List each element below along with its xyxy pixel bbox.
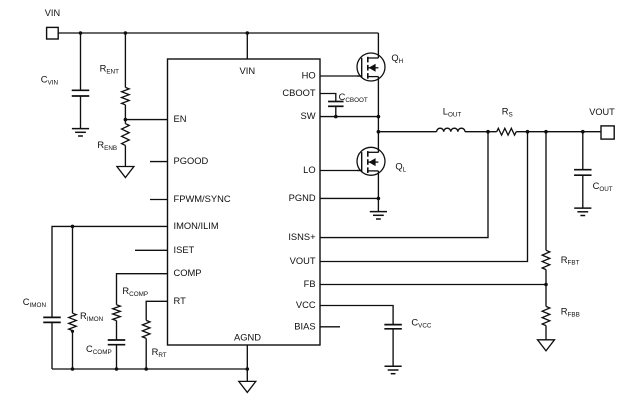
node RFBT tap — [544, 130, 548, 134]
node IC VIN tap — [246, 31, 250, 35]
node VOUT sense tap — [526, 130, 530, 134]
wire ISET stub — [135, 249, 168, 251]
wire RT — [146, 301, 167, 320]
svg-text:LO: LO — [303, 165, 315, 175]
capacitor COUT — [582, 132, 584, 170]
port VOUT terminal — [601, 126, 614, 139]
port VIN terminal — [47, 27, 59, 39]
svg-text:COMP: COMP — [174, 268, 202, 278]
node PGND — [377, 197, 381, 201]
resistor RENT — [124, 33, 126, 87]
node RIMON tap — [71, 225, 75, 229]
svg-text:SW: SW — [301, 111, 316, 121]
wire VCC — [320, 306, 393, 325]
wire RS to VOUT port — [516, 131, 601, 133]
node CVIN tap — [79, 31, 83, 35]
wire CBOOT — [320, 94, 336, 102]
wire AGND pin — [246, 345, 248, 381]
ground COUT — [574, 207, 591, 209]
wire AGND rail — [52, 368, 247, 370]
svg-text:VIN: VIN — [45, 8, 60, 18]
wire PGOOD stub — [150, 161, 168, 163]
svg-text:VCC: VCC — [296, 300, 316, 310]
wire IC VIN pin — [246, 33, 248, 59]
node ISNS+ tap — [486, 130, 490, 134]
ground RFBB — [538, 340, 555, 351]
resistor RRT — [142, 320, 150, 338]
node EN divider — [124, 118, 128, 122]
node CCOMP bottom — [115, 367, 119, 371]
transistor QH — [357, 53, 385, 81]
wire VIN rail — [58, 32, 378, 34]
resistor RFBB — [545, 285, 547, 307]
node RENT tap — [124, 31, 128, 35]
node SW output tap — [377, 130, 381, 134]
wire FPWM/SYNC stub — [150, 199, 168, 201]
node AGND — [246, 367, 250, 371]
wire QH source to QL drain — [377, 77, 379, 153]
svg-text:IMON/ILIM: IMON/ILIM — [174, 221, 219, 231]
svg-text:PGOOD: PGOOD — [174, 156, 209, 166]
wire HO to QH gate — [320, 75, 362, 77]
node RRT bottom — [144, 367, 148, 371]
svg-text:EN: EN — [174, 114, 187, 124]
svg-text:PGND: PGND — [289, 193, 316, 203]
svg-text:AGND: AGND — [234, 332, 261, 342]
svg-text:VOUT: VOUT — [589, 107, 615, 117]
capacitor CCOMP — [108, 339, 126, 341]
capacitor CVCC — [384, 324, 402, 326]
capacitor CBOOT — [328, 101, 344, 103]
ground AGND — [239, 381, 256, 392]
node FB — [544, 283, 548, 287]
wire SW — [320, 116, 378, 118]
resistor RENB — [124, 120, 126, 124]
wire SW to LOUT — [378, 131, 436, 133]
svg-text:VIN: VIN — [240, 66, 256, 76]
svg-text:CBOOT: CBOOT — [282, 88, 316, 98]
ground CVCC — [385, 365, 402, 367]
node SW — [377, 115, 381, 119]
capacitor CVIN — [80, 33, 82, 90]
node RIMON bottom — [71, 330, 74, 333]
node CIMON bottom — [71, 367, 75, 371]
wire BIAS stub — [320, 326, 340, 328]
wire LO to QL gate — [320, 170, 362, 172]
wire LOUT to RS — [465, 131, 497, 133]
wire IMON/ILIM — [52, 226, 168, 317]
ground CVIN — [72, 128, 89, 130]
ground RENB — [117, 167, 134, 178]
wire COMP — [117, 274, 168, 305]
wire PGND — [320, 197, 378, 199]
ground PGND — [370, 211, 387, 213]
wire EN — [125, 119, 167, 121]
resistor RIMON — [72, 226, 74, 313]
resistor RS — [497, 128, 517, 135]
svg-text:ISNS+: ISNS+ — [288, 232, 315, 242]
svg-text:HO: HO — [302, 71, 316, 81]
svg-text:VOUT: VOUT — [290, 256, 316, 266]
svg-text:FPWM/SYNC: FPWM/SYNC — [174, 194, 231, 204]
resistor RCOMP — [113, 305, 121, 321]
svg-text:ISET: ISET — [174, 245, 195, 255]
wire VOUT sense — [320, 132, 528, 262]
svg-text:FB: FB — [304, 279, 316, 289]
wire ISNS+ — [320, 132, 488, 238]
wire QH drain drop — [377, 33, 379, 58]
svg-text:RT: RT — [174, 296, 187, 306]
svg-text:BIAS: BIAS — [294, 321, 315, 331]
wire QL source — [377, 171, 379, 199]
wire FB — [320, 284, 546, 286]
IC U1 buck controller — [168, 59, 321, 345]
resistor RFBT — [545, 132, 547, 251]
capacitor CIMON — [43, 316, 61, 318]
node CBOOT-SW — [334, 115, 338, 119]
transistor QL — [357, 147, 385, 175]
inductor LOUT — [437, 128, 465, 132]
node COUT tap — [581, 130, 585, 134]
wire PGND ground lead — [377, 198, 379, 211]
